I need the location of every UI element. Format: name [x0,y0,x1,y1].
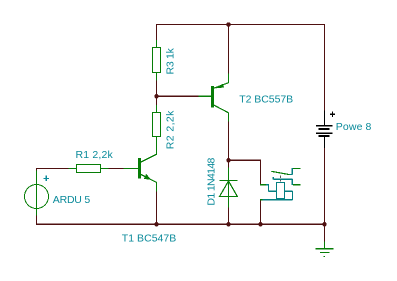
wire relay coil pin2 down [260,200,262,225]
source plus sign [43,176,49,182]
node junction R3/R2/T2-base [154,94,159,99]
transistor T2 [198,74,228,122]
wire diode top stub [228,160,230,167]
wire T1 emitter to bottom rail [156,191,158,224]
resistor R2 [153,105,161,144]
wire node to relay coil [229,160,261,185]
wire T2 collector down [228,121,230,160]
ground [316,241,334,256]
wire R1 to T1 base [108,168,123,170]
wire battery top drop [324,24,326,110]
node junction bottom rail / T1 emitter [154,222,159,227]
transistor T1 [124,144,157,191]
node junction bottom rail / D1 [226,222,231,227]
relay K1 switch [260,168,300,200]
wire T2 emitter drop [228,24,230,73]
svg-text:T1 BC547B: T1 BC547B [122,233,177,245]
voltage source V1 ARDU [25,171,49,216]
node junction T2 collector / D1 / relay [226,158,231,163]
wire bottom rail [36,223,325,225]
resistor R1 [68,165,108,173]
battery Powe [316,111,333,149]
battery plus sign [330,112,335,117]
wire R3 bottom to node [156,80,158,96]
svg-text:T2 BC557B: T2 BC557B [239,94,293,106]
node junction bottom rail / battery [322,222,327,227]
wire ground stub [324,224,326,241]
wire top rail [156,24,325,26]
relay K1 coil [262,183,293,201]
resistor R3 [153,40,161,80]
wire source bottom [36,215,38,224]
wire diode bottom [228,207,230,224]
diode D1 [219,168,237,208]
svg-text:R3 1k: R3 1k [165,47,177,74]
wire battery bottom [324,148,326,225]
wire R2 top [156,96,158,105]
svg-text:R1 2,2k: R1 2,2k [76,149,114,161]
svg-text:D1 1N4148: D1 1N4148 [205,157,217,205]
svg-text:R2 2,2k: R2 2,2k [165,110,177,149]
wire R3 top drop [156,24,158,40]
node junction top rail / T2 emitter [226,22,231,27]
node junction bottom rail / relay [258,222,263,227]
wire node to T2 base [157,95,199,97]
wire source top corner [36,168,68,171]
svg-text:ARDU 5: ARDU 5 [53,194,91,206]
svg-text:Powe 8: Powe 8 [336,121,372,133]
